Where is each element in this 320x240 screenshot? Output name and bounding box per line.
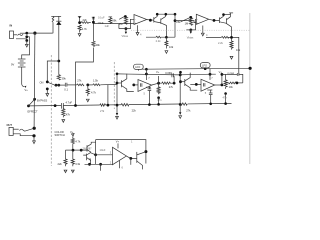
svg-text:10k: 10k (169, 45, 174, 49)
LFO top wire (66, 149, 82, 151)
svg-text:10uF: 10uF (100, 148, 106, 152)
svg-text:39k: 39k (62, 77, 67, 81)
transistor Q7 (136, 152, 138, 163)
resistor 39k v2 (109, 16, 113, 18)
svg-text:4.7k: 4.7k (75, 140, 81, 144)
resistor 22k h (81, 22, 91, 24)
svg-text:47k: 47k (66, 113, 71, 117)
svg-text:SWITCH: SWITCH (55, 133, 65, 137)
svg-text:10uF: 10uF (98, 21, 104, 25)
cap 10uF node (92, 16, 95, 18)
svg-text:39k: 39k (112, 19, 117, 23)
stage C (116, 74, 118, 106)
dashed separator left (50, 55, 52, 166)
svg-text:27k: 27k (100, 109, 105, 113)
svg-text:47n: 47n (223, 96, 228, 100)
OTA C (138, 80, 152, 92)
transistor Q2 (160, 19, 162, 24)
svg-text:LFO: LFO (202, 64, 207, 68)
svg-text:4.7k: 4.7k (82, 27, 88, 31)
LFO wires to op-amp (94, 153, 97, 156)
tee down to rail (107, 85, 109, 106)
transistor D1 (184, 79, 186, 86)
resistor 22k LFO v (64, 150, 67, 166)
svg-text:1M: 1M (185, 22, 189, 26)
stage D (179, 72, 181, 104)
resistor below output C (157, 83, 160, 94)
series cap in rail (61, 103, 63, 109)
diode D1 (56, 20, 61, 22)
mid bottom rail (29, 103, 232, 106)
svg-text:2.2k: 2.2k (156, 39, 162, 43)
svg-text:ON: ON (40, 81, 44, 85)
svg-text:1uF: 1uF (105, 24, 110, 28)
LFO label D (200, 63, 210, 68)
bottom wire B (206, 37, 239, 74)
V- arrow below rail left (116, 105, 118, 113)
svg-text:22k: 22k (83, 18, 88, 22)
audio node dots (55, 84, 58, 87)
right page border faint (249, 13, 251, 164)
svg-text:0.1uF: 0.1uF (98, 16, 105, 20)
signal wire mid row (117, 74, 180, 75)
svg-text:V+: V+ (25, 88, 29, 92)
ground flag below jack (26, 41, 28, 45)
svg-text:0.1: 0.1 (64, 87, 68, 91)
svg-text:27k: 27k (186, 108, 191, 112)
node dots input (25, 32, 28, 35)
transistor Q4 (226, 18, 228, 24)
transistor C1 (120, 80, 122, 87)
resistor v stage D (224, 74, 227, 89)
LFO label C (134, 64, 144, 69)
dotted separator horizontal (131, 29, 250, 31)
svg-text:22k: 22k (132, 109, 137, 113)
resistor 4.7k LFO (71, 136, 74, 150)
feedback wire (96, 140, 146, 164)
resistor squiggle input pull (51, 15, 61, 17)
op-amp U1b (196, 14, 208, 24)
wire to opamp plus (93, 22, 134, 25)
battery B1 9V (18, 59, 26, 67)
svg-text:0.068: 0.068 (165, 71, 172, 75)
dashed separator mid (113, 62, 115, 109)
pot B 1M (189, 18, 192, 25)
resistor 47k to gnd (62, 106, 65, 118)
opamp out to Q7 (126, 156, 136, 158)
OTA D (201, 79, 215, 91)
svg-text:27k: 27k (169, 85, 174, 89)
svg-text:EFFECT: EFFECT (28, 109, 39, 113)
resistor on rail b (121, 104, 129, 106)
resistor 4.7k to gnd flag (86, 85, 89, 96)
svg-text:10k: 10k (229, 85, 234, 89)
resistor 27k h stage C (parallel with cap) (159, 82, 175, 84)
resistor 10k to gnd under Q4 (230, 39, 233, 50)
resistor on rail a (100, 104, 106, 106)
first stage top network (78, 16, 81, 18)
output wire (147, 19, 154, 22)
wire input top (27, 32, 53, 34)
svg-text:4.7uF: 4.7uF (66, 100, 73, 104)
svg-text:3.3k: 3.3k (75, 162, 81, 166)
main vertical to out (33, 33, 36, 128)
pot A 1M (124, 17, 127, 24)
battery to V+ flag (22, 67, 25, 87)
op-amp U1a (134, 15, 147, 25)
svg-text:-: - (135, 18, 136, 21)
svg-text:2.2k: 2.2k (218, 41, 224, 45)
svg-text:1.5k: 1.5k (93, 79, 99, 83)
junction power (57, 60, 60, 63)
cap below OTA C (146, 86, 151, 88)
rail dots (74, 104, 77, 107)
svg-text:LFO: LFO (135, 65, 140, 69)
svg-text:22k: 22k (58, 162, 63, 166)
svg-text:BYPASS: BYPASS (37, 98, 47, 102)
power line vertical (58, 16, 60, 75)
svg-text:IN: IN (10, 24, 13, 28)
resistor 39k on power line (57, 75, 60, 81)
svg-text:47n: 47n (157, 98, 162, 102)
cap below OTA D (207, 89, 212, 91)
svg-text:1M: 1M (119, 22, 123, 26)
pot B wiper (181, 18, 190, 22)
resistor 3.3k LFO v (71, 150, 74, 166)
input jack J1 (10, 31, 27, 41)
resistor 22k horizontal (77, 84, 84, 86)
svg-text:4.7k: 4.7k (91, 91, 97, 95)
svg-text:Vbias: Vbias (122, 34, 129, 38)
bottom wire A with resistor (146, 36, 175, 38)
svg-text:27k: 27k (77, 78, 82, 82)
top rail A (156, 13, 176, 15)
svg-text:9V: 9V (11, 63, 14, 67)
svg-text:39k: 39k (96, 43, 101, 47)
resistor 1.5k horizontal (88, 84, 93, 86)
svg-text:Vbias: Vbias (187, 36, 194, 40)
out coupling branch right (221, 73, 224, 76)
resistor 4.7k v + gnd (78, 25, 81, 33)
mini rail B (223, 14, 231, 16)
ON switch branch (47, 61, 59, 82)
V+ rail mid row (143, 67, 250, 70)
wire to battery (22, 37, 30, 59)
svg-text:0.068: 0.068 (227, 71, 234, 75)
pot A wiper arrow (119, 17, 124, 20)
svg-text:OUT: OUT (7, 123, 13, 127)
svg-text:10k: 10k (236, 48, 241, 52)
op-amp U2 LFO (113, 147, 127, 164)
V- arrow below rail stage D (179, 104, 181, 112)
svg-text:-: - (197, 18, 198, 21)
resistor 39k v (92, 41, 95, 46)
transistor Q3 (219, 17, 221, 23)
resistor on rail c (180, 103, 188, 105)
transistor Q1 (153, 17, 155, 22)
capacitor C 0.1 (65, 83, 67, 87)
svg-text:V+: V+ (156, 70, 160, 74)
